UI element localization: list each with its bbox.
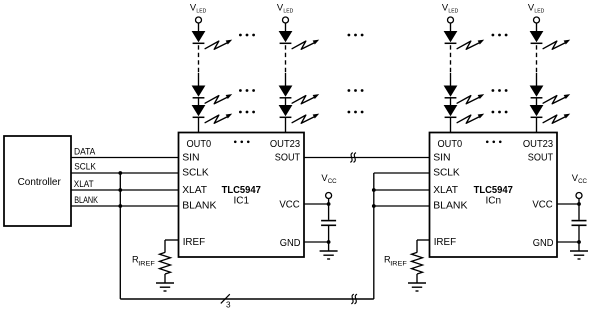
LED 3a [445,32,485,50]
svg-text:IREF: IREF [138,260,155,267]
wire-break symbol on bus [351,294,357,304]
wire to LED 2b anode [285,73,287,87]
ellipsis dots between strings 1-2 row3 [239,111,255,114]
svg-text:TLC5947: TLC5947 [222,185,261,196]
ellipsis dots between strings 1-2 row2 [239,89,255,92]
svg-text:GND: GND [533,238,554,249]
svg-text:DATA: DATA [74,147,96,157]
ellipsis dots between strings 1-2 row1 [239,34,255,37]
svg-text:XLAT: XLAT [182,185,207,196]
wire LED 3b cathode to LED 3c anode [450,98,452,106]
wire IREF of ICn to RIREF [417,239,430,241]
svg-text:SIN: SIN [182,153,199,164]
svg-text:LED: LED [196,9,206,15]
wire-break symbol on SOUT-SIN link [350,153,356,163]
wire to LED 3b anode [450,73,452,87]
ellipsis dots inside ICn OUT0..OUT23 [486,141,502,144]
svg-text:XLAT: XLAT [74,179,94,189]
svg-text:OUT23: OUT23 [523,139,553,150]
resistor RIREF (ICn) [412,252,423,274]
VCC terminal (IC1) [326,193,332,199]
ground below GND pin (ICn) [570,251,588,259]
svg-text:LED: LED [283,9,293,15]
wire VLED to LED 2a anode [285,23,287,32]
svg-text:BLANK: BLANK [433,201,467,212]
wire DATA: controller to SIN of IC1 [71,157,179,159]
supply label VCC (IC1) [321,172,337,185]
svg-text:SCLK: SCLK [433,168,460,179]
wire cap to GND junction (IC1) [328,226,330,242]
LED 1c [193,106,233,124]
junction ICn XLAT tap [372,188,376,192]
op-amp/driver IC ICn (TLC5947) [430,133,558,258]
wire rail to bypass cap (ICn) [578,204,580,220]
ellipsis dots between IC1 and ICn strings row3 [348,111,364,114]
svg-text:SCLK: SCLK [182,168,209,179]
wire SCLK: controller to SCLK of IC1 [71,172,179,174]
ellipsis dots between strings 3-4 row3 [492,111,508,114]
junction SCLK bus tap [118,171,122,175]
VLED terminal (string 1) [196,17,202,23]
wire GND pin of IC1 to rail [304,241,329,243]
svg-text:SIN: SIN [433,153,450,164]
wire VCC terminal to VCC pin (IC1) [328,198,330,204]
LED 3b [445,86,485,104]
wire GND junction to ground (ICn) [578,242,580,251]
ellipsis dots between IC1 and ICn strings row2 [348,89,364,92]
svg-text:CC: CC [328,178,337,185]
junction VCC junction (ICn) [577,202,581,206]
svg-text:IREF: IREF [434,237,456,248]
junction ICn BLANK tap [372,204,376,208]
VCC terminal (ICn) [576,193,582,199]
LED 2c [280,106,320,124]
svg-text:Controller: Controller [18,177,62,188]
junction GND junction (ICn) [577,240,581,244]
ellipsis dots between strings 3-4 row2 [492,89,508,92]
wire VCC terminal to VCC pin (ICn) [578,198,580,204]
wire (dashed) continued LED string 1 [198,45,200,73]
svg-text:SOUT: SOUT [528,153,554,164]
ellipsis dots between strings 3-4 row1 [492,34,508,37]
label RIREF (ICn) [384,254,407,267]
wire cap to GND junction (ICn) [578,226,580,242]
wire (dashed) continued LED string 3 [450,45,452,73]
svg-text:GND: GND [280,238,301,249]
VLED terminal (string 2) [283,17,289,23]
svg-text:IC1: IC1 [233,195,249,206]
LED 4c [531,106,571,124]
wire LED 1b cathode to LED 1c anode [198,98,200,106]
bus width slash [221,294,230,303]
svg-text:OUT23: OUT23 [270,139,300,150]
svg-text:SCLK: SCLK [74,161,96,171]
svg-text:OUT0: OUT0 [438,139,463,150]
capacitor bypass (ICn) [572,221,587,226]
svg-text:TLC5947: TLC5947 [474,185,513,196]
LED 2a [280,32,320,50]
wire LED 4c cathode to OUT23 of ICn [536,117,538,133]
capacitor bypass (IC1) [321,221,336,226]
wire LED 2b cathode to LED 2c anode [285,98,287,106]
supply label VLED (string 4) [528,2,544,15]
wire bus to XLAT of ICn [374,189,430,191]
junction BLANK bus tap [118,204,122,208]
supply label VCC (ICn) [572,172,588,185]
wire GND pin of ICn to rail [557,241,579,243]
wire (dashed) continued LED string 4 [536,45,538,73]
wire (dashed) continued LED string 2 [285,45,287,73]
ground below RIREF (ICn) [408,283,426,291]
wire bus to BLANK of ICn [374,205,430,207]
svg-text:XLAT: XLAT [433,185,458,196]
VLED terminal (string 4) [534,17,540,23]
wire VLED to LED 4a anode [536,23,538,32]
wire SOUT of IC1 to SIN of ICn [304,157,430,159]
wire RIREF top lead [164,240,166,253]
svg-text:IREF: IREF [390,260,407,267]
LED 4a [531,32,571,50]
LED 3c [445,106,485,124]
wire to LED 1b anode [198,73,200,87]
ground below GND pin (IC1) [320,251,338,259]
LED 2b [280,86,320,104]
ellipsis dots inside IC1 OUT0..OUT23 [234,141,250,144]
ellipsis dots between IC1 and ICn strings row1 [348,34,364,37]
wire bus drop from SCLK/XLAT/BLANK [119,173,121,299]
wire VCC pin of ICn to rail [557,203,579,205]
svg-text:3: 3 [226,301,231,310]
svg-text:VCC: VCC [279,199,300,210]
wire IREF of IC1 to RIREF [165,239,179,241]
wire LED 1c cathode to OUT0 of IC1 [198,117,200,133]
svg-text:BLANK: BLANK [74,195,98,205]
wire RIREF bottom lead [164,274,166,283]
wire to LED 4b anode [536,73,538,87]
wire LED 3c cathode to OUT0 of ICn [450,117,452,133]
supply label VLED (string 2) [277,2,293,15]
svg-text:ICn: ICn [485,195,501,206]
supply label VLED (string 3) [442,2,458,15]
wire LED 2c cathode to OUT23 of IC1 [285,117,287,133]
LED 4b [531,86,571,104]
controller block [4,136,71,226]
wire XLAT: controller to XLAT of IC1 [71,189,179,191]
wire bus riser to ICn SCLK [373,173,375,299]
wire VLED to LED 1a anode [198,23,200,32]
LED 1a [193,32,233,50]
wire 3-wire bus to ICn [120,298,373,300]
LED 1b [193,86,233,104]
svg-text:LED: LED [534,9,544,15]
junction VCC junction (IC1) [327,202,331,206]
wire RIREF(ICn) bottom lead [416,274,418,283]
ground below RIREF (IC1) [156,283,174,291]
junction GND junction (IC1) [327,240,331,244]
svg-text:IREF: IREF [183,237,205,248]
wire BLANK: controller to BLANK of IC1 [71,205,179,207]
svg-text:VCC: VCC [532,199,553,210]
wire rail to bypass cap (IC1) [328,204,330,220]
svg-text:OUT0: OUT0 [187,139,212,150]
wire GND junction to ground (IC1) [328,242,330,251]
wire RIREF(ICn) top lead [416,240,418,253]
svg-text:SOUT: SOUT [275,153,301,164]
wire VLED to LED 3a anode [450,23,452,32]
wire bus to SCLK of ICn [374,172,430,174]
svg-text:CC: CC [578,178,587,185]
svg-text:BLANK: BLANK [182,201,216,212]
junction XLAT bus tap [118,188,122,192]
VLED terminal (string 3) [448,17,454,23]
svg-text:LED: LED [448,9,458,15]
wire LED 4b cathode to LED 4c anode [536,98,538,106]
wire VCC pin of IC1 to rail [304,203,329,205]
supply label VLED (string 1) [190,2,206,15]
op-amp/driver IC IC1 (TLC5947) [179,133,305,258]
resistor RIREF (IC1) [160,252,171,274]
label RIREF (IC1) [132,254,155,267]
